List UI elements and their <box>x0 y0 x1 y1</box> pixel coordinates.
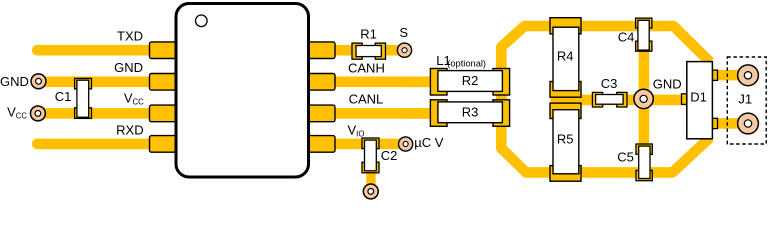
resistor R1 <box>352 43 386 59</box>
diode D1 left pad <box>682 94 688 105</box>
svg-text:C4: C4 <box>618 30 635 45</box>
connector J1 pad top <box>738 65 759 86</box>
svg-text:R4: R4 <box>557 49 574 64</box>
svg-text:R2: R2 <box>462 73 479 88</box>
diode D1 right pad bottom <box>712 118 717 128</box>
resistor R5 <box>550 103 581 181</box>
via pad uC V <box>399 137 413 151</box>
IC pin 5 (VIO) <box>308 136 335 153</box>
IC pin1 marker <box>196 15 208 27</box>
connector J1 dashed outline <box>727 57 766 144</box>
IC U1 body <box>176 4 309 178</box>
diode D1 right pad top <box>712 70 717 80</box>
capacitor C1 <box>75 78 92 118</box>
wire TXD trace <box>32 45 158 56</box>
resistor R2 <box>430 69 509 96</box>
svg-text:TXD: TXD <box>117 28 143 43</box>
svg-text:RXD: RXD <box>116 123 143 138</box>
via pad GND (middle) <box>634 89 653 108</box>
wire VIO trace <box>330 139 406 150</box>
wire C2 to via trace <box>366 160 375 188</box>
capacitor C4 <box>636 18 652 51</box>
wire GND trace <box>38 77 156 88</box>
resistor R4 <box>550 18 581 98</box>
svg-text:S: S <box>399 25 408 40</box>
wire CANH trace <box>330 77 435 88</box>
svg-text:C5: C5 <box>617 149 634 164</box>
via pad S <box>397 43 411 57</box>
wire C4-GND-C5 vertical trace <box>639 48 650 148</box>
IC pin 6 (CANL) <box>308 105 335 122</box>
via pad VCC <box>30 106 45 121</box>
IC pin 7 (CANH) <box>308 74 335 91</box>
capacitor C2 <box>362 138 379 173</box>
wire CANL trace <box>330 108 435 119</box>
svg-text:J1: J1 <box>738 92 752 107</box>
svg-text:C1: C1 <box>55 89 72 104</box>
wire D1 to J1 bottom trace <box>714 118 748 129</box>
IC pin 1 (TXD) <box>150 42 177 59</box>
resistor R3 <box>430 100 509 127</box>
svg-text:GND: GND <box>653 76 682 91</box>
capacitor C3 <box>592 92 627 107</box>
wire VCC trace <box>37 108 156 119</box>
wire bus termination loop <box>501 26 710 172</box>
IC pin 8 (row1 right) <box>308 42 335 59</box>
diode D1 body <box>687 62 713 139</box>
wire CANL to R3 trace <box>404 108 434 119</box>
IC pin 2 (GND) <box>150 74 177 91</box>
wire D1 to J1 top trace <box>714 70 748 81</box>
svg-text:CANH: CANH <box>348 61 385 76</box>
svg-text:C3: C3 <box>601 76 618 91</box>
wire pin8 to S pad trace <box>330 45 404 56</box>
svg-text:GND: GND <box>0 74 29 89</box>
svg-text:GND: GND <box>114 60 143 75</box>
via pad below C2 <box>363 184 378 199</box>
capacitor C5 <box>636 144 652 181</box>
svg-text:C2: C2 <box>381 148 398 163</box>
connector J1 pad bottom <box>738 113 759 134</box>
svg-text:µC V: µC V <box>414 135 443 150</box>
svg-text:D1: D1 <box>690 90 707 105</box>
wire middle GND trace <box>551 95 687 106</box>
wire CANH to R2 trace <box>404 77 434 88</box>
svg-text:R1: R1 <box>360 27 377 42</box>
IC pin 3 (VCC) <box>150 105 177 122</box>
via pad GND <box>31 74 46 89</box>
svg-text:CANL: CANL <box>349 92 384 107</box>
svg-text:R5: R5 <box>557 132 574 147</box>
IC pin 4 (RXD) <box>150 136 177 153</box>
svg-text:R3: R3 <box>462 105 479 120</box>
wire RXD trace <box>32 139 158 150</box>
